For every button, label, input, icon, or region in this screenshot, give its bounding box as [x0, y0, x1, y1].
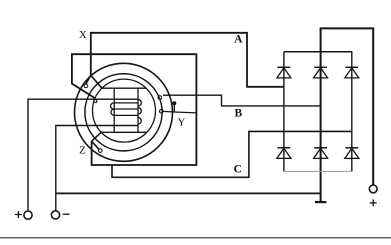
- rotor coil left loop 2: [111, 109, 114, 115]
- tap Y circle lower: [160, 109, 164, 113]
- tap Z lead to pole corner: [92, 132, 102, 141]
- stator outer circle: [75, 63, 173, 161]
- rotor coil rung 4: [114, 114, 138, 116]
- diode D6: [345, 148, 359, 159]
- diode D4: [277, 148, 291, 159]
- rotor top pole chord: [102, 87, 146, 89]
- rotor coil rung 3: [114, 108, 138, 110]
- bottom rule line: [0, 237, 391, 239]
- rotor coil left rail: [113, 88, 115, 132]
- minus sign: [63, 213, 70, 215]
- wire: minus branch to ground column: [56, 192, 321, 194]
- rotor coil right loop 3: [138, 117, 141, 124]
- diode D3: [345, 67, 359, 78]
- tap Y stub to frame wire: [163, 111, 197, 113]
- terminal plus left: [24, 211, 32, 219]
- diode D1: [277, 67, 291, 78]
- rectifier middle column: [320, 52, 322, 202]
- wire: phase B from tap Y to rectifier: [163, 95, 321, 106]
- diode D5: [314, 148, 328, 159]
- rotor bottom pole chord: [101, 131, 147, 133]
- stator inner circle: [85, 74, 162, 151]
- svg-text:Y: Y: [178, 116, 186, 128]
- rectifier bottom rail: [284, 170, 352, 172]
- svg-text:Z: Z: [79, 144, 86, 156]
- tap Z slip-ring circle: [99, 149, 103, 153]
- terminal plus right: [369, 185, 377, 193]
- wire: plus terminal riser and coil top rung: [28, 99, 138, 211]
- rotor coil right loop 2: [138, 108, 141, 115]
- wire: phase C from frame to rectifier: [112, 131, 352, 177]
- wire: minus terminal riser and coil bottom rung: [56, 126, 138, 211]
- rotor body circle: [93, 79, 156, 142]
- svg-text:B: B: [234, 108, 242, 120]
- rotor coil right loop 1: [138, 99, 141, 106]
- plus sign left: [15, 211, 22, 218]
- rectifier right column: [351, 52, 353, 172]
- wire: neutral frame loop: [72, 54, 196, 165]
- tap Y dot: [172, 101, 176, 105]
- ground bar: [315, 201, 327, 203]
- brush square J1: [94, 99, 97, 102]
- plus sign right: [370, 199, 377, 206]
- tap Y dot drop wire: [173, 103, 175, 112]
- diode D2: [314, 67, 328, 78]
- rotor coil rung 2: [114, 102, 138, 104]
- svg-text:X: X: [79, 29, 87, 41]
- wire: phase A from tap X to rectifier: [91, 33, 284, 87]
- terminal minus left: [51, 211, 59, 219]
- wire: positive output top jog and right drop: [321, 28, 374, 185]
- tap X slip-ring circle: [84, 84, 88, 88]
- tap X slot line: [86, 75, 91, 84]
- tap Y circle upper: [158, 96, 162, 100]
- rotor coil right rail: [137, 88, 139, 132]
- svg-text:C: C: [234, 164, 242, 176]
- svg-text:A: A: [234, 33, 243, 45]
- tap X lead to pole corner: [91, 75, 102, 88]
- rectifier left column: [283, 52, 285, 172]
- rotor coil left loop 1: [111, 103, 115, 109]
- tap Z slot line: [92, 141, 99, 149]
- rectifier top rail: [284, 51, 352, 53]
